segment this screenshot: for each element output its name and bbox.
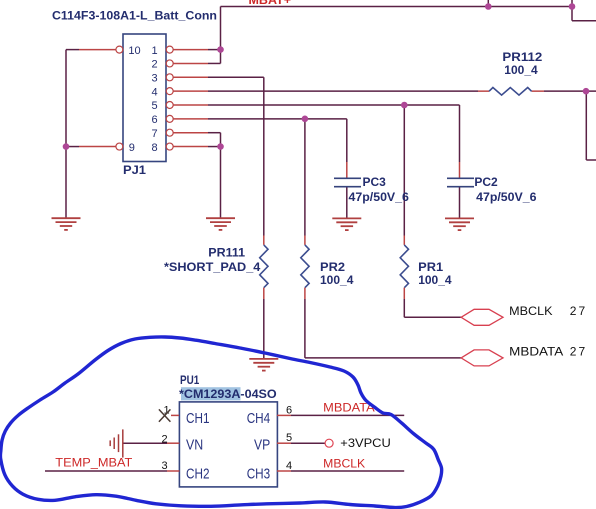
svg-text:TEMP_MBAT: TEMP_MBAT bbox=[55, 455, 133, 469]
svg-text:47p/50V_6: 47p/50V_6 bbox=[476, 190, 537, 204]
IC pin stubs red bbox=[167, 415, 291, 471]
svg-text:4: 4 bbox=[151, 86, 157, 98]
svg-text:4: 4 bbox=[286, 460, 292, 472]
PJ1 red pin stubs right bbox=[173, 50, 208, 147]
svg-text:PR1: PR1 bbox=[418, 260, 443, 274]
svg-text:MBCLK: MBCLK bbox=[509, 304, 552, 318]
IC PU1 body bbox=[179, 402, 277, 487]
svg-text:MBCLK: MBCLK bbox=[323, 456, 365, 470]
svg-text:PR2: PR2 bbox=[320, 260, 345, 274]
PJ1 pin circles left bbox=[116, 46, 123, 150]
svg-text:CH4: CH4 bbox=[247, 410, 271, 427]
PJ1 right pin numbers 1-8 bbox=[151, 45, 157, 154]
wire pin4 to PR112 bbox=[208, 91, 596, 160]
svg-text:CH1: CH1 bbox=[186, 410, 210, 427]
junction on MBAT+ rail bbox=[485, 3, 492, 10]
PJ1 pin circles right bbox=[166, 46, 173, 150]
wire MBDATA pin6 bbox=[291, 414, 404, 416]
svg-text:2: 2 bbox=[151, 59, 157, 71]
svg-text:+3VPCU: +3VPCU bbox=[340, 436, 391, 450]
svg-text:47p/50V_6: 47p/50V_6 bbox=[349, 190, 410, 204]
svg-text:6: 6 bbox=[286, 404, 292, 416]
junction after PR112 bbox=[583, 88, 590, 95]
svg-text:PC2: PC2 bbox=[474, 175, 498, 189]
svg-text:PU1: PU1 bbox=[180, 373, 199, 387]
svg-text:27: 27 bbox=[570, 304, 586, 318]
ground symbol PC2 bbox=[445, 218, 474, 230]
wire pin1/pin2 to MBAT+ bbox=[208, 50, 221, 64]
resistor PR111 bbox=[260, 236, 268, 300]
svg-text:PR112: PR112 bbox=[502, 50, 542, 64]
svg-text:8: 8 bbox=[151, 142, 157, 154]
svg-text:7: 7 bbox=[151, 128, 157, 140]
svg-text:*SHORT_PAD_4: *SHORT_PAD_4 bbox=[164, 260, 261, 274]
resistor PR1 bbox=[400, 236, 408, 300]
wire left ground branch bbox=[66, 50, 79, 218]
svg-text:PC3: PC3 bbox=[363, 175, 387, 189]
svg-text:9: 9 bbox=[129, 142, 135, 154]
resistor PR112 bbox=[478, 88, 544, 96]
ground symbol PC3 bbox=[332, 218, 361, 230]
wire pin6 net bbox=[208, 119, 347, 236]
wire PR2 to MBDATA bbox=[305, 299, 461, 358]
svg-text:3: 3 bbox=[151, 73, 157, 85]
svg-text:100_4: 100_4 bbox=[320, 273, 354, 287]
ground symbol pin8 bbox=[206, 218, 235, 230]
junction pin6 PR2 bbox=[302, 116, 309, 123]
svg-text:100_4: 100_4 bbox=[418, 273, 452, 287]
ground symbol PR111 bbox=[249, 359, 278, 371]
svg-text:CH3: CH3 bbox=[247, 465, 271, 482]
wire pin3 to PR111 bbox=[208, 77, 264, 235]
ground symbol left bbox=[52, 218, 81, 230]
connector PJ1 body bbox=[123, 34, 166, 162]
svg-text:PR111: PR111 bbox=[208, 246, 245, 260]
highlight on part number bbox=[181, 387, 241, 400]
PJ1 red pin stubs left bbox=[79, 50, 116, 147]
no-connect X pin1 bbox=[159, 409, 171, 421]
wire MBCLK pin4 bbox=[291, 470, 404, 472]
wire VP pin5 bbox=[291, 442, 325, 444]
off-page connector MBCLK bbox=[461, 309, 503, 325]
wire PR1 to MBCLK bbox=[404, 299, 461, 317]
svg-text:VN: VN bbox=[186, 436, 203, 453]
wire pin7/pin8 ground branch bbox=[208, 133, 221, 218]
junction at MBAT+ corner bbox=[569, 3, 576, 10]
wire pin5 net bbox=[208, 105, 460, 236]
wire VN bbox=[124, 442, 168, 444]
svg-text:27: 27 bbox=[570, 344, 586, 358]
svg-text:1: 1 bbox=[151, 45, 157, 57]
resistor PR2 bbox=[301, 236, 309, 300]
svg-text:*CM1293A-04SO: *CM1293A-04SO bbox=[179, 387, 277, 401]
off-page connector MBDATA bbox=[461, 350, 503, 366]
svg-text:6: 6 bbox=[151, 114, 157, 126]
wire TEMP_MBAT bbox=[45, 470, 167, 472]
VN bars symbol bbox=[110, 429, 123, 457]
freehand blue blob bbox=[0, 337, 441, 508]
svg-text:CH2: CH2 bbox=[186, 465, 210, 482]
+3VPCU no-connect circle bbox=[325, 439, 333, 447]
capacitor PC2 bbox=[447, 162, 474, 218]
svg-text:100_4: 100_4 bbox=[504, 63, 538, 77]
svg-text:5: 5 bbox=[151, 100, 157, 112]
svg-text:3: 3 bbox=[161, 460, 167, 472]
svg-text:5: 5 bbox=[286, 432, 292, 444]
junction pin1 bbox=[217, 46, 224, 53]
wire PR111 to ground bbox=[263, 299, 265, 358]
svg-text:10: 10 bbox=[128, 45, 140, 57]
capacitor PC3 bbox=[334, 162, 361, 218]
svg-text:MBDATA: MBDATA bbox=[509, 344, 563, 358]
svg-text:VP: VP bbox=[254, 436, 270, 453]
junction pin8 bbox=[217, 143, 224, 150]
svg-text:PJ1: PJ1 bbox=[123, 163, 146, 177]
junction pin5 PR1 bbox=[401, 102, 408, 109]
wire MBAT+ rail bbox=[221, 0, 596, 50]
svg-text:C114F3-108A1-L_Batt_Conn: C114F3-108A1-L_Batt_Conn bbox=[52, 8, 217, 22]
junction left pin9 bbox=[63, 143, 70, 150]
